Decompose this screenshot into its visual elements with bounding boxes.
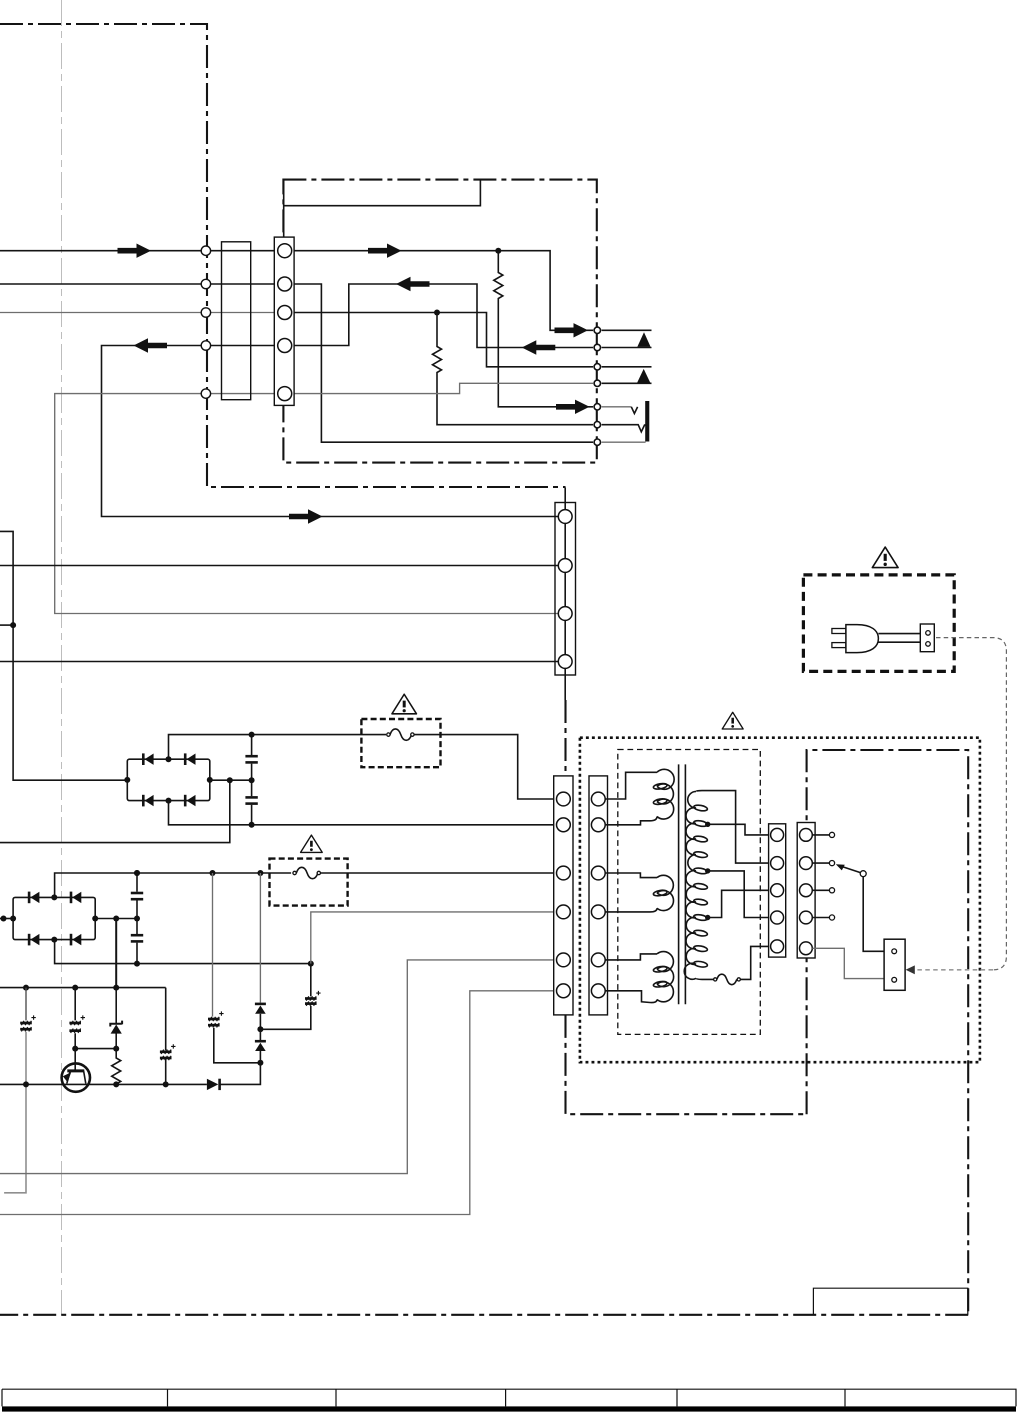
chassis dash-dot boundary lower-middle <box>566 1015 807 1114</box>
capacitor pair C1/C2 C upper <box>245 755 257 758</box>
fuse F2 <box>296 867 318 878</box>
AC plug dashed box <box>803 575 954 672</box>
node stub <box>10 622 16 628</box>
transformer dashed box <box>618 750 761 1035</box>
diode <box>184 753 187 765</box>
capacitor pair C3/C4 C lower <box>131 934 143 937</box>
wire gray column x260 (from fuse line) <box>259 873 261 1003</box>
wire input line 2 <box>0 283 285 285</box>
AC plug connector end <box>920 624 934 652</box>
wire switch to receptacle <box>863 876 884 951</box>
wire AV3 <box>285 313 593 367</box>
diode <box>70 892 73 904</box>
wire to bridge D1 <box>0 531 127 780</box>
wire gray riser to CN4 <box>311 912 557 964</box>
capacitor pair C3/C4 wire <box>136 873 138 964</box>
wire CN502-5 to receptacle (gray) <box>812 948 884 978</box>
jack line 5 <box>602 406 632 408</box>
connector CN501 <box>769 824 786 957</box>
node <box>134 961 140 967</box>
wire AV6 (gray) <box>285 383 593 393</box>
wire input line 5 (gray) <box>55 394 559 614</box>
warning symbol 2 <box>301 835 323 852</box>
capacitor C5 (electrolytic) <box>20 1022 32 1025</box>
signal arrow AV4b <box>522 340 556 354</box>
wire emitter rail <box>0 1083 207 1085</box>
fuse F2 dashed box <box>270 859 348 906</box>
AC plug cord <box>878 633 920 635</box>
connector CN301 feed line <box>564 488 566 701</box>
chassis dash-dot boundary transformer-right <box>807 750 969 1315</box>
node <box>257 1026 263 1032</box>
jack line 7 <box>602 441 646 443</box>
warning symbol 3 <box>722 712 743 729</box>
node bridge right <box>207 777 213 783</box>
capacitor C8 (electrolytic) <box>208 1018 220 1021</box>
switch S1 arm <box>860 871 866 877</box>
stub line out 2 <box>602 347 652 349</box>
signal arrow AV1b <box>555 323 589 337</box>
wire input line 4 <box>102 346 559 517</box>
node bridge left <box>124 777 130 783</box>
chassis dash-dot boundary bottom <box>0 1314 968 1316</box>
stub line out 4 <box>602 382 652 384</box>
capacitor C7 (electrolytic) <box>69 1022 81 1025</box>
node bridge bottom <box>51 937 57 943</box>
wire supply row <box>0 987 166 989</box>
diode <box>184 795 187 807</box>
node tap 1 <box>705 822 710 827</box>
wire regulator feed <box>115 919 117 988</box>
connector CN301 <box>555 503 576 676</box>
wire fuse F2 line <box>55 873 557 897</box>
connector pins on chassis line <box>201 246 210 255</box>
label tab in AV block <box>284 180 481 238</box>
transformer core <box>678 764 680 1004</box>
node <box>72 985 78 991</box>
triangle marker 2 <box>637 369 650 383</box>
transformer secondary winding <box>684 792 696 980</box>
node <box>134 870 140 876</box>
transformer primary winding 1 <box>605 772 657 799</box>
node tap 3 <box>705 915 710 920</box>
diode <box>142 753 145 765</box>
resistor R3 <box>112 1049 121 1085</box>
warning symbol 1 <box>392 694 417 714</box>
secondary tap 3 <box>708 890 771 917</box>
capacitor C6 (electrolytic) <box>160 1050 172 1053</box>
capacitor C8 (electrolytic) plus <box>219 1011 223 1015</box>
diode <box>142 795 145 807</box>
wire bridge D2 left <box>0 918 13 920</box>
connector housing CN101 <box>222 242 251 400</box>
resistor R1 <box>494 251 593 407</box>
node <box>113 985 119 991</box>
stub line out 3 <box>602 366 652 368</box>
connector CN402 (transformer side) <box>589 776 608 1015</box>
node <box>113 1081 119 1087</box>
node <box>134 870 140 876</box>
wire fuse F1 line <box>169 735 557 799</box>
AC plug body <box>846 625 879 653</box>
node <box>257 870 263 876</box>
wire gray rail (C5 column) <box>25 988 27 1021</box>
node bridge right <box>92 916 98 922</box>
secondary top lead <box>696 791 771 864</box>
capacitor C6 column <box>165 988 167 1085</box>
capacitor C9 (electrolytic) plus <box>316 991 320 995</box>
fuse F1 <box>390 729 412 740</box>
fuse F1 dashed box <box>361 719 440 767</box>
wire gray column x213 (from fuse line) <box>212 873 214 1017</box>
wire AV2 <box>285 284 593 442</box>
wire bridge D2 bottom <box>55 940 311 964</box>
capacitor pair C3/C4 C upper <box>131 892 143 895</box>
bridge rectifier D2 <box>13 897 95 939</box>
node AV1 <box>495 248 501 254</box>
node <box>249 777 255 783</box>
diode <box>28 934 31 946</box>
diode <box>70 934 73 946</box>
jack line 6 <box>602 425 646 432</box>
node bridge bottom <box>166 798 172 804</box>
node <box>134 916 140 922</box>
wire to C4 column <box>260 1006 310 1030</box>
wire C7 column <box>75 988 116 1049</box>
signal arrow AV1a <box>368 244 402 258</box>
node <box>113 1046 119 1052</box>
capacitor C9 (electrolytic) <box>305 997 317 1000</box>
warning symbol 4 <box>872 547 898 568</box>
signal arrow right to CN circle 1 <box>289 509 323 523</box>
capacitor pair C1/C2 wire <box>251 735 253 825</box>
node <box>23 1081 29 1087</box>
signal arrow AV5 <box>556 400 590 414</box>
diode D6 <box>255 1003 266 1006</box>
chassis dash-dot boundary top-left <box>0 24 566 776</box>
secondary tap 1 <box>708 824 771 835</box>
transistor Q1 <box>62 1063 90 1091</box>
diode D7 <box>255 1040 266 1043</box>
node <box>163 1081 169 1087</box>
AC receptacle <box>884 939 905 990</box>
wire bridge D1 right <box>0 780 252 842</box>
wire input line 7 <box>0 661 558 663</box>
node bridge left <box>10 916 16 922</box>
node <box>227 777 233 783</box>
node bridge top <box>51 894 57 900</box>
signal arrow left line 4 <box>134 338 168 352</box>
node AV3 <box>434 310 440 316</box>
node <box>1 916 7 922</box>
jack bar <box>645 401 649 442</box>
node <box>249 822 255 828</box>
capacitor pair C1/C2 C lower <box>245 796 257 799</box>
AV block edge pins <box>594 327 600 333</box>
secondary bottom lead with thermal fuse <box>696 978 713 979</box>
switch S1 contacts <box>812 834 829 836</box>
bridge rectifier D1 <box>127 759 210 800</box>
capacitor C6 (electrolytic) plus <box>171 1044 175 1048</box>
node <box>72 1046 78 1052</box>
revision box <box>813 1288 967 1315</box>
node tap 2 <box>705 868 710 873</box>
node <box>257 1060 263 1066</box>
wire bridge D2 right <box>95 918 137 920</box>
connector CN201 <box>274 237 294 405</box>
title block table <box>2 1389 1016 1406</box>
diode D5 <box>207 1079 218 1090</box>
plug connection dashed path <box>936 638 1006 970</box>
wire input line 1 <box>0 250 285 252</box>
wire AV4 <box>285 284 593 348</box>
wire input line 6 <box>0 565 558 567</box>
connector CN401 (power in) <box>554 776 573 1015</box>
stub line node <box>0 624 13 626</box>
node <box>249 732 255 738</box>
center line (gray dash-dot) <box>61 0 63 1315</box>
wire gray drop line 1 <box>0 960 557 1174</box>
node <box>113 916 119 922</box>
resistor R2 <box>433 313 594 425</box>
AC plug prongs <box>832 629 846 634</box>
arrow to receptacle <box>906 965 915 974</box>
transformer primary winding 3 <box>605 954 657 960</box>
node <box>210 870 216 876</box>
signal arrow right <box>118 244 152 258</box>
node bridge top <box>166 756 172 762</box>
wire bridge D1 bottom <box>169 801 557 825</box>
AV block dash-dot border <box>283 180 596 463</box>
transformer primary winding 2 <box>605 873 657 878</box>
capacitor C5 (electrolytic) plus <box>31 1015 35 1019</box>
secondary tap 2 <box>708 871 771 918</box>
node <box>308 961 314 967</box>
signal arrow AV4a <box>396 277 430 291</box>
wire AV1 <box>285 251 593 331</box>
wire input line 3 (gray) <box>0 312 285 314</box>
node <box>23 985 29 991</box>
capacitor C7 (electrolytic) plus <box>81 1015 85 1019</box>
diode <box>28 892 31 904</box>
stub line out 1 <box>602 329 652 331</box>
triangle marker 1 <box>637 332 650 347</box>
connector CN502 <box>797 823 815 959</box>
zener diode ZD1 <box>115 988 117 1049</box>
power unit dotted box <box>580 738 980 1062</box>
wire gray drop line 2 <box>0 991 557 1215</box>
